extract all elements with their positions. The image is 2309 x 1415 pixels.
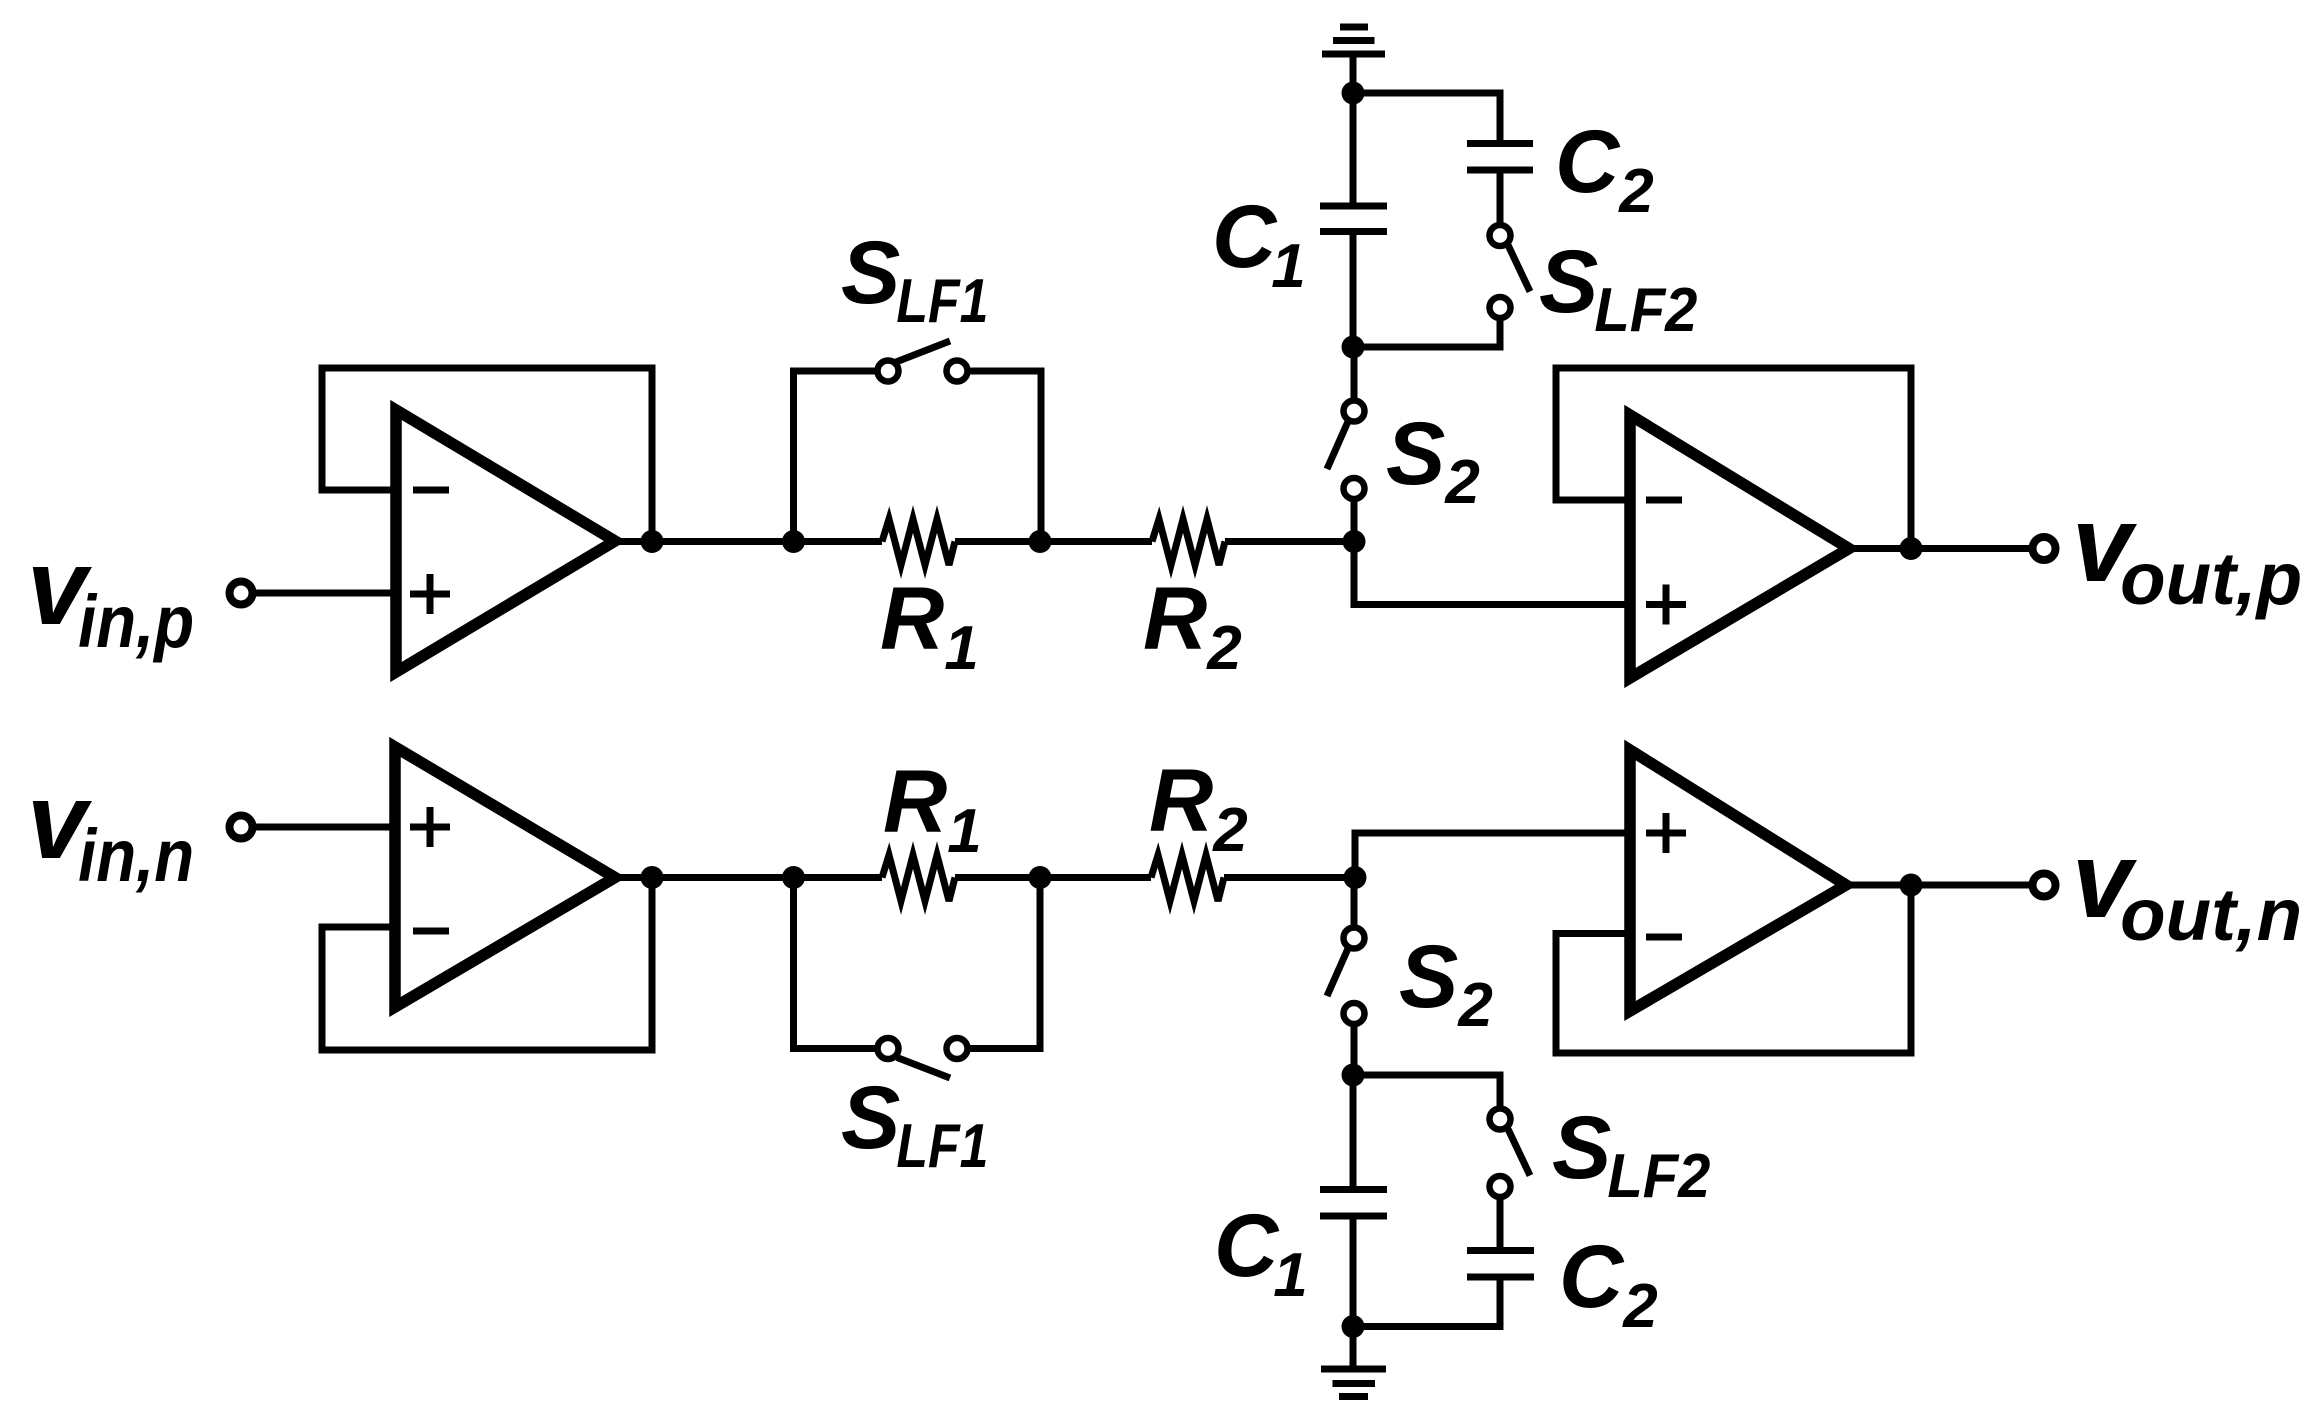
node R1 left junction (bottom) <box>782 866 805 889</box>
node B junction (bottom) <box>1342 1064 1365 1087</box>
ground (bottom) <box>1321 1327 1386 1397</box>
wire U2 output <box>1849 545 2032 552</box>
switch S2 (bottom) blade <box>1327 949 1348 997</box>
ground (top, inverted) <box>1322 27 1385 93</box>
wire v_in,n to U3 + input <box>253 824 395 831</box>
op-amp U3 minus pin label <box>413 928 449 935</box>
wire S2 to node B (top) <box>1351 347 1358 401</box>
wire U1 feedback loop <box>322 368 652 542</box>
switch S2 (bottom) contacts <box>1344 928 1365 949</box>
switch S_LF1 (top) contacts <box>878 361 899 382</box>
wire S_LF1 bypass branch (bottom) <box>794 878 1041 1049</box>
resistor R1 (bottom) <box>882 855 955 901</box>
node U1 feedback junction <box>641 530 664 553</box>
op-amp U2 triangle <box>1630 415 1849 678</box>
switch S_LF1 (top) blade <box>896 341 950 362</box>
wire node B to S_LF2 branch (bottom) <box>1353 1075 1500 1109</box>
capacitor C2 (bottom) <box>1467 1251 1534 1278</box>
svg-text:vout,p: vout,p <box>2072 483 2302 620</box>
wire R1 to R2 (bottom) <box>955 874 1151 881</box>
op-amp U3 triangle <box>395 747 615 1007</box>
wire U2 feedback loop <box>1556 368 1911 549</box>
switch S_LF2 (top) contacts <box>1490 297 1511 318</box>
node ground junction (bottom) <box>1342 1315 1365 1338</box>
wire v_in,p to U1 + input <box>253 590 396 597</box>
op-amp U4 plus pin label <box>1646 813 1686 853</box>
svg-text:SLF1: SLF1 <box>841 1067 988 1181</box>
wire C2 to ground node (bottom) <box>1353 1277 1500 1327</box>
node ground junction (top) <box>1342 82 1365 105</box>
node R1 right junction <box>1029 530 1052 553</box>
svg-text:vin,n: vin,n <box>27 760 194 897</box>
wire C2 to ground node (top) <box>1353 93 1500 144</box>
svg-text:C1: C1 <box>1212 186 1306 301</box>
wire node A to U2 + input <box>1354 542 1630 605</box>
wire node B to C1 (bottom) <box>1350 1075 1357 1190</box>
wire C1 to ground node (bottom) <box>1350 1216 1357 1327</box>
wire node A to S2 (top) <box>1351 499 1358 542</box>
node U2 output junction <box>1900 537 1923 560</box>
wire R1 to R2 <box>955 538 1152 545</box>
capacitor C1 (bottom) <box>1320 1190 1387 1217</box>
wire node B to S_LF2 branch (top) <box>1353 318 1500 347</box>
wire node A to S2 (bottom) <box>1351 878 1358 928</box>
op-amp U2 minus pin label <box>1646 497 1682 504</box>
switch S2 (top) blade <box>1327 422 1348 470</box>
wire R2 to node A <box>1225 538 1354 545</box>
op-amp U4 minus pin label <box>1646 934 1682 941</box>
op-amp U4 triangle <box>1630 750 1846 1011</box>
svg-text:SLF1: SLF1 <box>841 222 988 336</box>
svg-text:C1: C1 <box>1214 1195 1308 1310</box>
wire S_LF1 bypass branch (top) <box>794 371 1042 542</box>
svg-text:R2: R2 <box>1149 750 1248 865</box>
terminal v_in,n <box>230 816 253 839</box>
wire C1 to ground node (top) <box>1350 93 1357 206</box>
op-amp U1 plus pin label <box>410 574 450 614</box>
svg-text:vin,p: vin,p <box>27 526 194 663</box>
wire node A to U4 + input <box>1355 833 1630 878</box>
svg-text:SLF2: SLF2 <box>1552 1097 1710 1211</box>
wire S_LF2 to C2 (top) <box>1497 170 1504 225</box>
op-amp U1 triangle <box>396 410 615 672</box>
wire U1 output <box>615 538 882 545</box>
wire U3 output <box>615 874 882 881</box>
resistor R1 (top) <box>882 519 955 565</box>
terminal v_out,n <box>2033 874 2056 897</box>
svg-text:R1: R1 <box>880 568 979 683</box>
svg-text:C2: C2 <box>1555 111 1654 226</box>
wire S2 to node B (bottom) <box>1351 1024 1358 1075</box>
op-amp U2 plus pin label <box>1646 585 1686 625</box>
switch S_LF2 (top) blade <box>1508 245 1530 292</box>
switch S2 (top) contacts <box>1344 478 1365 499</box>
node R1 right junction (bottom) <box>1029 866 1052 889</box>
svg-text:C2: C2 <box>1559 1226 1658 1341</box>
wire R2 to node A (bottom) <box>1224 874 1356 881</box>
capacitor C2 (top) <box>1467 144 1533 171</box>
resistor R2 (top) <box>1152 519 1225 565</box>
op-amp U1 minus pin label <box>413 487 449 494</box>
wire node B to C1 (top) <box>1350 232 1357 348</box>
capacitor C1 (top) <box>1320 206 1387 232</box>
node A junction (top) <box>1343 530 1366 553</box>
svg-text:S2: S2 <box>1386 403 1480 517</box>
svg-text:R1: R1 <box>883 751 982 866</box>
switch S_LF1 (bottom) blade <box>897 1058 950 1079</box>
node A junction (bottom) <box>1344 866 1367 889</box>
switch S_LF2 (bottom) contacts <box>1490 1109 1511 1130</box>
node B junction (top) <box>1342 336 1365 359</box>
resistor R2 (bottom) <box>1151 855 1224 901</box>
node U4 output junction <box>1900 874 1923 897</box>
wire U4 feedback loop <box>1556 885 1911 1053</box>
wire S_LF2 to C2 (bottom) <box>1497 1197 1504 1251</box>
switch S_LF2 (bottom) blade <box>1508 1129 1530 1176</box>
svg-text:S2: S2 <box>1399 926 1493 1040</box>
svg-text:vout,n: vout,n <box>2072 819 2302 956</box>
terminal v_in,p <box>230 582 253 605</box>
node U3 feedback junction <box>641 866 664 889</box>
wire U4 output <box>1846 882 2032 889</box>
terminal v_out,p <box>2033 537 2056 560</box>
svg-text:R2: R2 <box>1143 568 1242 683</box>
svg-text:SLF2: SLF2 <box>1539 231 1697 345</box>
node R1 left junction <box>782 530 805 553</box>
wire U3 feedback loop <box>322 878 652 1051</box>
switch S_LF1 (bottom) contacts <box>878 1038 899 1059</box>
op-amp U3 plus pin label <box>410 807 450 847</box>
